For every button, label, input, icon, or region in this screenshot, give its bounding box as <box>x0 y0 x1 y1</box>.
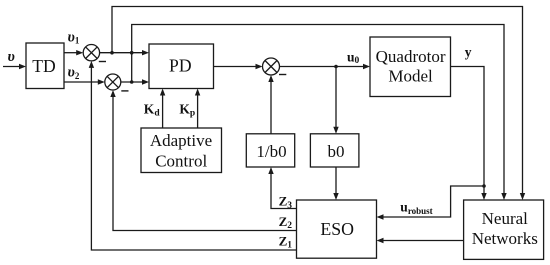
arrowhead into ESO from NN <box>377 238 384 243</box>
block Quadrotor Model <box>370 37 451 97</box>
summing junction S3 <box>263 58 280 75</box>
arrowhead into PD from Kd <box>160 89 165 96</box>
arrowhead into S1 from TD <box>76 50 83 55</box>
block 1/b0 <box>246 134 294 167</box>
minus sign at S2 <box>121 90 128 91</box>
block PD <box>149 44 214 89</box>
wire e2 pickoff up <box>132 25 504 194</box>
arrowhead into S3 from PD <box>256 64 263 69</box>
arrowhead into S3 from 1/b0 <box>268 75 273 82</box>
svg-text:Quadrotor: Quadrotor <box>376 47 446 66</box>
minus sign at S1 <box>99 61 106 62</box>
svg-text:Model: Model <box>388 67 433 86</box>
arrowhead into PD e1 <box>142 50 149 55</box>
svg-text:Networks: Networks <box>472 229 538 248</box>
svg-text:Adaptive: Adaptive <box>150 131 212 150</box>
arrowhead into NN from y <box>481 193 486 200</box>
arrowhead into PD from Kp <box>195 89 200 96</box>
junction dot e1/x112 <box>110 51 114 55</box>
svg-text:Neural: Neural <box>482 209 529 228</box>
wire Z2 from ESO to S2 <box>113 97 297 231</box>
arrowhead into b0 <box>333 127 338 134</box>
wire b0 down to ESO <box>335 167 337 194</box>
wire S1 to PD (e1) <box>100 52 143 54</box>
block ESO <box>297 200 377 258</box>
arrowhead into S2 from TD <box>98 79 105 84</box>
block Neural Networks <box>464 200 544 259</box>
svg-text:υ: υ <box>8 49 15 65</box>
arrowhead into ESO u_robust <box>377 214 384 219</box>
block TD <box>26 43 64 89</box>
svg-text:PD: PD <box>169 56 192 76</box>
wire 1/b0 up to S3 <box>270 82 272 134</box>
arrowhead into ESO from b0 <box>333 193 338 200</box>
wire Z3 from ESO to 1/b0 <box>271 174 297 209</box>
svg-text:Control: Control <box>155 151 207 170</box>
wire TD to S1 (v1) <box>64 52 77 54</box>
block b0 <box>310 134 359 167</box>
arrowhead into 1/b0 from Z3 <box>268 167 273 174</box>
wire Quadrotor Model output y <box>451 67 485 194</box>
svg-text:TD: TD <box>32 56 55 76</box>
wire S3 to Quadrotor Model (u0) <box>280 66 364 68</box>
arrowhead into NN from e1 line <box>520 193 525 200</box>
junction dot u0 branch <box>334 65 338 69</box>
junction dot e2/x131 <box>130 80 134 84</box>
minus sign at S3 <box>279 74 286 75</box>
wire PD to S3 <box>214 66 257 68</box>
arrowhead into PD e2 <box>142 79 149 84</box>
summing junction S1 <box>83 45 99 61</box>
arrowhead into S2 from Z2 <box>110 90 115 97</box>
block Adaptive Control <box>141 128 222 173</box>
wire Kp up to PD <box>197 95 199 128</box>
arrowhead into S1 from Z1 <box>89 61 94 68</box>
arrowhead into TD <box>19 64 26 69</box>
wire S2 to PD (e2) <box>121 81 143 83</box>
wire u0 branch down to b0 <box>335 67 337 128</box>
junction dot y branch u_robust <box>482 184 486 188</box>
svg-text:1/b0: 1/b0 <box>256 142 286 161</box>
junction dot e1/x131 <box>130 51 134 55</box>
svg-text:y: y <box>465 45 472 60</box>
svg-text:b0: b0 <box>328 142 345 161</box>
wire v input to TD <box>3 66 20 68</box>
wire Z1 from ESO to S1 <box>91 68 296 251</box>
svg-text:ESO: ESO <box>320 219 354 239</box>
summing junction S2 <box>105 74 121 90</box>
wire e1 pickoff up <box>112 7 523 194</box>
arrowhead into NN from e2 line <box>501 193 506 200</box>
wire u_robust tap to ESO <box>383 186 484 217</box>
wire TD to S2 (v2) <box>64 81 99 83</box>
wire Kd up to PD <box>162 95 164 128</box>
arrowhead into Quadrotor Model <box>363 64 370 69</box>
wire Neural Networks to ESO <box>383 240 464 242</box>
